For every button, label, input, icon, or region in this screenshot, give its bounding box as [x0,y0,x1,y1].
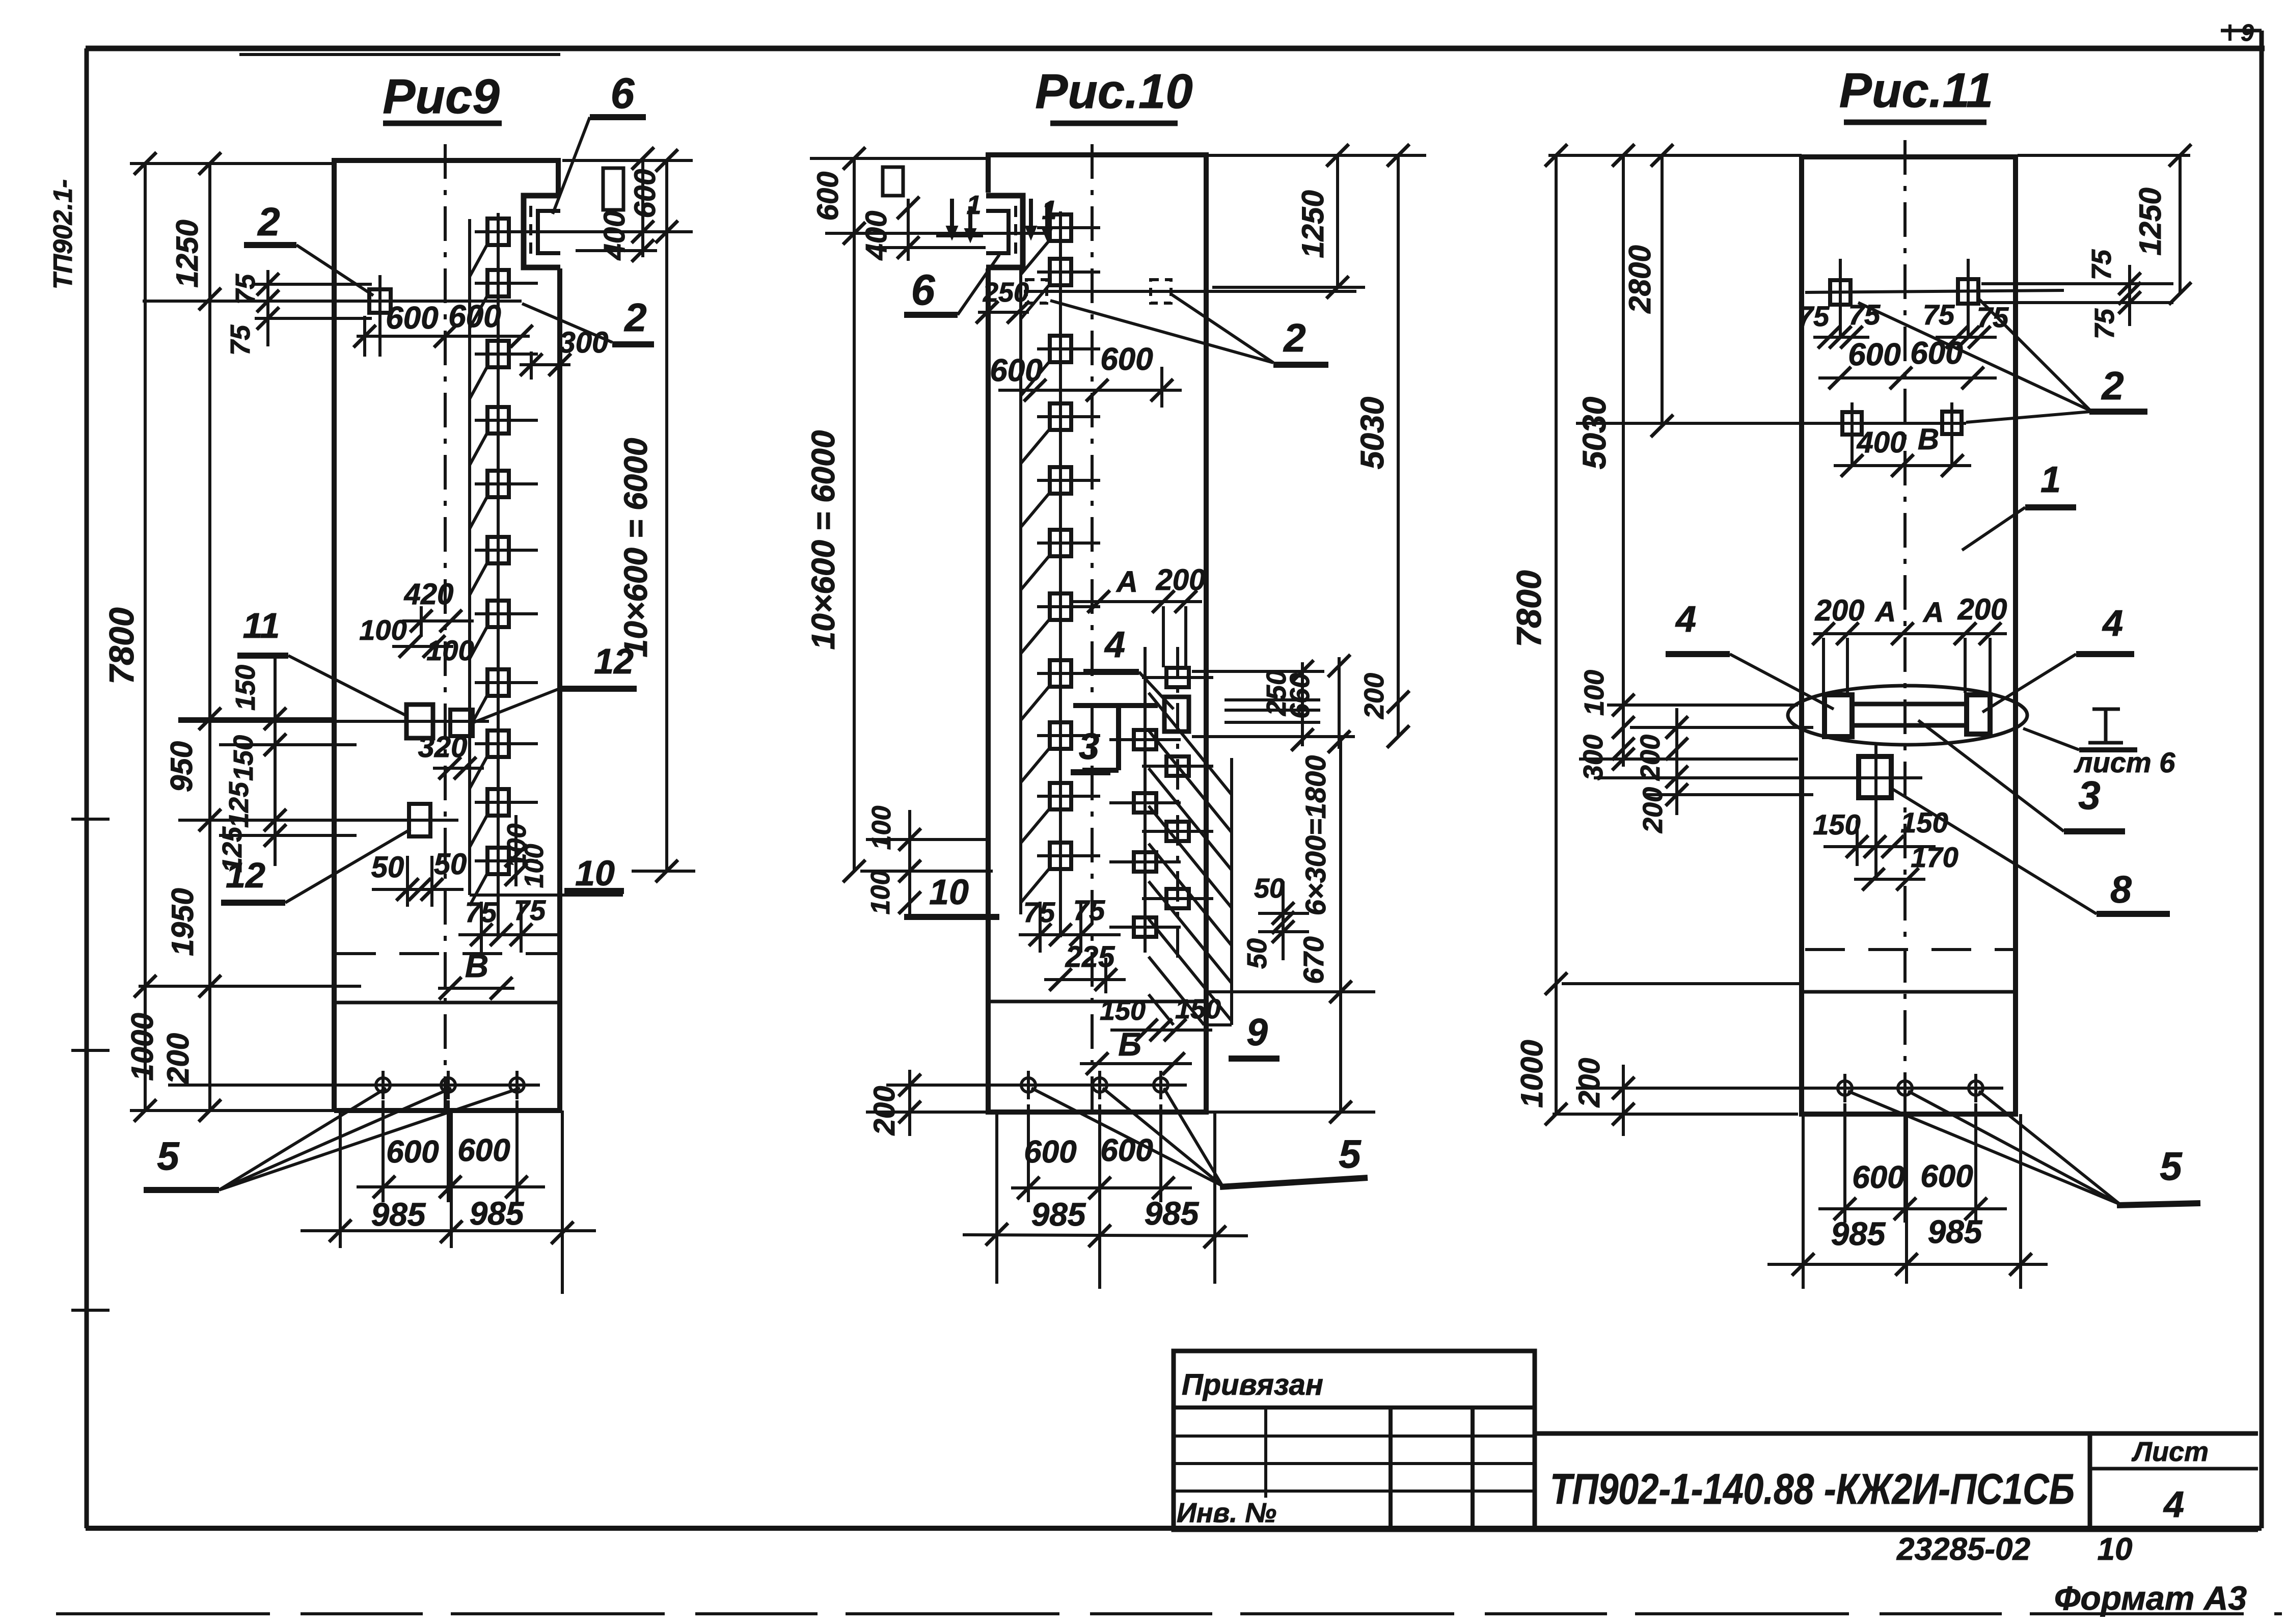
section symbol I лист 6 [2092,708,2120,711]
fold marks on left border [71,818,110,821]
plate item at y=950 [487,471,509,497]
plates 11 and 12 (fig1 middle) [406,705,433,738]
svg-text:225: 225 [1065,940,1115,973]
svg-text:50: 50 [371,851,404,884]
svg-text:985: 985 [1031,1196,1086,1233]
svg-text:50: 50 [434,848,467,881]
svg-text:Инв. №: Инв. № [1177,1498,1276,1528]
embedded plates column fig1 [497,213,500,937]
svg-text:950: 950 [165,741,199,792]
svg-text:3: 3 [2078,773,2100,818]
svg-text:600: 600 [1852,1160,1904,1195]
svg-text:6: 6 [611,69,635,117]
svg-text:100: 100 [426,634,474,666]
svg-text:4: 4 [1104,625,1125,665]
plate item at y=1690 [487,848,509,874]
oval detail group fig3 [1788,686,2027,745]
weld contour detail 3 fig2 [1073,703,1158,708]
svg-text:150: 150 [1900,806,1948,838]
lower left plate fig1 (label 12) [409,804,430,836]
svg-text:200: 200 [1638,787,1668,833]
svg-text:300: 300 [559,326,609,359]
svg-text:75: 75 [1073,894,1105,926]
svg-text:200: 200 [1359,673,1390,719]
svg-text:670: 670 [1297,936,1329,984]
svg-text:100: 100 [359,614,406,646]
svg-text:150: 150 [1100,995,1146,1026]
lifting notch bracket 6 (fig2 top left) [986,196,1023,267]
svg-text:400: 400 [1857,426,1907,459]
plate item fig2 y=534 [1050,259,1071,285]
svg-text:985: 985 [470,1195,525,1232]
svg-text:600: 600 [386,1134,439,1170]
svg-text:1000: 1000 [1515,1040,1549,1107]
mounting holes fig3 [1838,1081,1852,1095]
svg-text:600: 600 [629,169,662,219]
svg-text:Формат А3: Формат А3 [2054,1579,2247,1617]
plate item at y=825 [487,407,509,434]
svg-text:11: 11 [243,606,280,645]
left dim chain fig2 [810,157,986,160]
zigzag plate fig2 (2312,1330) [1166,668,1189,687]
svg-text:10×600 = 6000: 10×600 = 6000 [617,438,654,658]
svg-text:200: 200 [1635,735,1666,781]
zigzag plate fig2 (2248,1692) [1134,852,1156,872]
svg-text:Рис.11: Рис.11 [1839,63,1993,118]
lifting notch bracket 6 (fig1 top right) [524,196,560,267]
bottom dashed trim line [56,1612,2282,1615]
centerline fig2 [1091,144,1094,1112]
svg-text:12: 12 [226,855,265,895]
svg-text:9: 9 [2241,19,2254,46]
svg-text:985: 985 [1831,1215,1886,1252]
svg-text:A: A [1115,565,1138,599]
svg-text:ТП902.1-: ТП902.1- [48,179,78,290]
mid mini chain fig1: 150 150 125 125 [178,717,336,720]
svg-text:75: 75 [1848,299,1881,331]
svg-text:4: 4 [2163,1484,2184,1525]
svg-text:4: 4 [2102,603,2123,644]
centerline fig1 [444,144,447,1111]
label 10 underline fig1 [564,888,624,894]
svg-text:600: 600 [457,1133,510,1168]
plate item at y=695 [487,341,509,367]
svg-text:600: 600 [1920,1159,1973,1194]
svg-text:8: 8 [2110,868,2132,911]
svg-text:75: 75 [514,894,546,926]
plate item at y=556 [487,270,509,296]
right dims fig2: 250 660 200 6x300=1800 670 [1192,670,1324,673]
svg-text:600: 600 [811,172,845,221]
svg-text:600: 600 [386,301,438,336]
small rectangle symbol fig1 top right [603,168,623,210]
mounting holes fig2 [1021,1078,1036,1092]
title block: sheet cell [2090,1467,2258,1471]
svg-text:5: 5 [157,1133,180,1178]
svg-text:ТП902-1-140.88 -КЖ2И-ПС1СБ: ТП902-1-140.88 -КЖ2И-ПС1СБ [1550,1465,2075,1513]
svg-text:150: 150 [228,735,259,781]
zigzag plates fig2 right [1144,647,1147,953]
plate item fig2 y=1444 [1050,722,1071,749]
svg-text:200: 200 [1957,593,2007,626]
centerline fig3 [1903,140,1907,1114]
plate item fig2 y=1563 [1050,783,1071,809]
svg-text:100: 100 [867,806,896,850]
bottom dims fig2 [995,1112,998,1284]
weld strip line fig1 with label 10 [468,219,471,895]
svg-text:600: 600 [1910,336,1963,371]
mid-left mini chain fig3 [1607,703,1798,707]
svg-text:250: 250 [983,277,1029,308]
plate item at y=1080 [487,537,509,563]
inner horizontal line fig3 [1802,990,2016,994]
svg-text:600: 600 [1024,1134,1076,1170]
plate item fig2 y=1191 [1050,593,1071,620]
panel Рис.11 outline [1802,157,2016,1114]
svg-text:A: A [1874,596,1896,628]
plate 4 right [1967,695,1990,734]
svg-text:2: 2 [2101,363,2124,408]
svg-text:5: 5 [1339,1131,1362,1176]
svg-text:1250: 1250 [170,220,204,287]
svg-text:5030: 5030 [1354,397,1391,469]
svg-text:1250: 1250 [2133,187,2167,255]
dashed line fig3 bottom zone [1805,948,2013,951]
svg-text:660: 660 [1285,673,1315,719]
svg-text:400: 400 [598,211,631,261]
title block: left table [1174,1351,1535,1530]
svg-text:10×600 = 6000: 10×600 = 6000 [805,430,841,650]
svg-text:150: 150 [230,665,261,711]
svg-text:В: В [1918,423,1939,456]
embedded plates column fig2 [1059,211,1062,937]
svg-text:2: 2 [623,295,646,340]
tall plate detail 4 fig2 [1164,697,1189,732]
plate 8 fig3 [1859,756,1891,798]
svg-text:9: 9 [1246,1011,1268,1053]
plate item at y=1205 [487,601,509,627]
panel Рис.10 outline [988,155,1206,1112]
bottom dims fig1 600 600 / 985 985 [339,1111,342,1248]
svg-text:75: 75 [1923,299,1955,331]
zigzag plate fig2 (2312,1632) [1166,822,1189,841]
svg-text:420: 420 [404,578,454,611]
svg-text:7800: 7800 [1510,570,1548,647]
section arrows fig2 [950,199,954,230]
svg-text:400: 400 [860,211,893,261]
plate 2 (fig1 left) [369,289,391,313]
zigzag plate fig2 (2312,1504) [1166,756,1189,776]
plate item at y=1575 [487,789,509,816]
svg-text:1950: 1950 [166,888,200,956]
mini 75/75 chain fig1 top [255,283,372,286]
inner horizontal line fig2 [988,1000,1206,1004]
svg-text:985: 985 [1928,1213,1983,1250]
svg-text:5: 5 [2160,1144,2183,1188]
svg-text:300: 300 [1578,735,1609,780]
dashed phantom plates fig2 [1026,280,1047,303]
plate item at y=455 [487,219,509,245]
svg-text:600: 600 [1100,342,1153,377]
plates row2 fig3 [1842,412,1862,435]
right dim chain fig1: 600 / 400 / 10x600=6000 [562,159,693,162]
svg-text:75: 75 [230,274,261,305]
plates row1 fig3 [1830,280,1850,305]
svg-text:2: 2 [257,199,280,244]
svg-text:6: 6 [911,266,936,314]
svg-text:75: 75 [2089,308,2120,339]
zigzag plate fig2 (2248,1576) [1134,793,1156,813]
svg-text:1000: 1000 [125,1013,159,1080]
panel Рис9 outline [334,160,560,1111]
svg-text:600: 600 [1848,337,1900,372]
svg-text:150: 150 [1813,808,1860,841]
svg-text:5030: 5030 [1576,397,1613,469]
svg-text:3: 3 [1079,726,1099,767]
svg-text:Привязан: Привязан [1182,1368,1323,1401]
svg-text:100: 100 [1579,670,1610,716]
left dim chain fig3 [1548,154,1802,157]
svg-text:Лист: Лист [2131,1437,2209,1467]
svg-text:75: 75 [1798,300,1830,332]
svg-text:2: 2 [1283,315,1305,360]
zigzag plate fig2 (2312,1764) [1166,889,1189,908]
plate item at y=1460 [487,730,509,757]
plate item fig2 y=685 [1050,336,1071,362]
inner horizontal line fig1 [334,1001,558,1005]
svg-text:150: 150 [1175,994,1221,1024]
svg-text:1250: 1250 [1296,190,1330,258]
plate 4 left [1825,695,1852,737]
bottom dims fig3 [1802,1114,1805,1289]
svg-text:2800: 2800 [1623,245,1657,313]
svg-text:200: 200 [161,1033,195,1085]
svg-text:23285-02: 23285-02 [1896,1532,2030,1567]
right dim chain fig3: 1250, 75 75 [2018,154,2190,157]
svg-text:Б: Б [1118,1026,1141,1063]
plate item at y=1340 [487,669,509,696]
plate item fig2 y=1066 [1050,530,1071,556]
svg-text:10: 10 [575,853,615,893]
zigzag plate fig2 (2248,1820) [1134,917,1156,937]
tie bar detail 3 [1852,702,1967,707]
svg-text:1: 1 [967,191,982,220]
svg-text:600: 600 [990,353,1042,388]
svg-text:6×300=1800: 6×300=1800 [1299,755,1331,916]
plate item fig2 y=1680 [1050,843,1071,869]
svg-text:75: 75 [2086,249,2117,280]
svg-text:Рис9: Рис9 [383,69,499,124]
svg-text:200: 200 [1573,1058,1606,1108]
svg-text:600: 600 [448,299,501,334]
svg-text:985: 985 [371,1196,426,1233]
svg-text:7800: 7800 [102,607,141,684]
svg-text:4: 4 [1675,599,1696,640]
svg-text:75: 75 [225,324,256,356]
svg-text:12: 12 [594,641,634,681]
svg-text:Рис.10: Рис.10 [1035,64,1193,119]
svg-text:600: 600 [1100,1133,1153,1168]
svg-text:100: 100 [866,871,895,915]
svg-text:50: 50 [1242,938,1272,969]
svg-text:985: 985 [1145,1195,1200,1232]
hatch zone fig2 [1149,693,1232,795]
svg-text:10: 10 [2098,1532,2133,1567]
svg-text:10: 10 [929,872,969,912]
weld strip line fig2 [1019,268,1022,914]
zigzag plate fig2 (2248,1452) [1134,730,1156,749]
svg-text:75: 75 [1977,301,2009,333]
plate item fig2 y=1322 [1050,660,1071,687]
plate item fig2 y=447 [1050,214,1071,241]
mounting holes fig1 [376,1078,390,1092]
right dim chain fig2: 1250 5030 [1208,154,1426,157]
title block: main bar [1535,1431,2258,1436]
svg-text:50: 50 [1254,873,1285,904]
svg-text:1: 1 [2040,459,2061,500]
svg-text:A: A [1922,596,1944,628]
left dim chain fig1 [130,162,336,165]
plate item fig2 y=818 [1050,403,1071,430]
plate item fig2 y=943 [1050,467,1071,494]
dashed line fig1 bottom zone [336,952,557,955]
